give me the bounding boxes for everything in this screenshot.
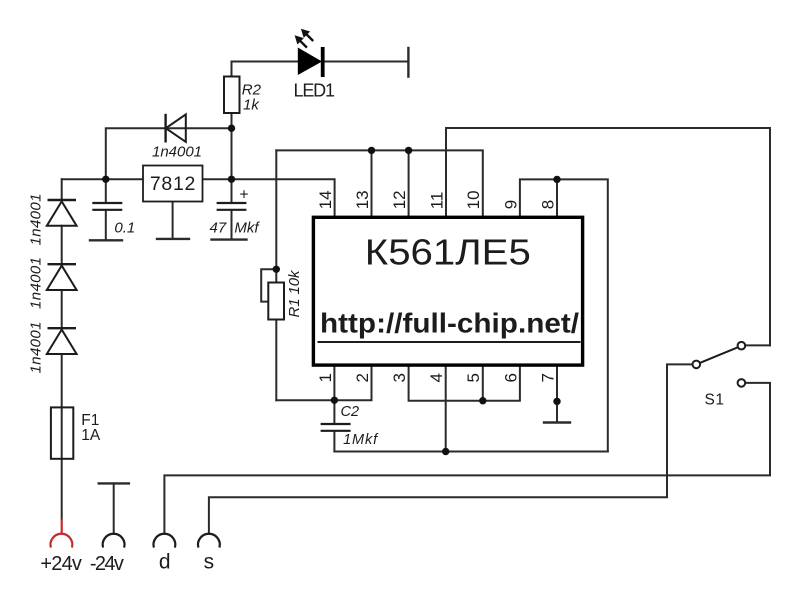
switch S1 lever bbox=[700, 347, 738, 363]
ground bar -24v bbox=[99, 482, 129, 484]
pin 7 label bbox=[538, 373, 557, 382]
label K561LE5 bbox=[365, 231, 531, 272]
wire -24v stem bbox=[113, 483, 115, 533]
wire bottom ground line bbox=[334, 451, 607, 453]
label R1 10k bbox=[286, 269, 303, 318]
wire s terminal to switch common bbox=[209, 364, 693, 533]
junction dot pin 5 bbox=[479, 397, 486, 404]
svg-text:0.1: 0.1 bbox=[114, 220, 135, 237]
wire R2 bottom to output line bbox=[231, 113, 233, 179]
label R2 value bbox=[242, 82, 262, 114]
svg-text:1n4001: 1n4001 bbox=[152, 144, 202, 161]
wire 0.1 cap stems bbox=[105, 179, 107, 239]
label 1n4001 D1 bbox=[27, 194, 44, 246]
pin 8 label bbox=[538, 200, 557, 209]
svg-text:6: 6 bbox=[501, 373, 520, 382]
wire pin 4 bbox=[445, 367, 447, 452]
underline url bbox=[318, 341, 581, 343]
svg-text:11: 11 bbox=[427, 192, 446, 210]
svg-text:9: 9 bbox=[501, 200, 520, 209]
svg-text:S1: S1 bbox=[705, 391, 725, 408]
svg-text:http://full-chip.net/: http://full-chip.net/ bbox=[320, 308, 579, 339]
svg-text:+: + bbox=[240, 187, 249, 204]
wire red +24v lead bbox=[61, 519, 63, 534]
wire d terminal to switch throw 2 bbox=[164, 383, 770, 534]
svg-text:Mkf: Mkf bbox=[234, 220, 260, 237]
capacitor 0.1 plates bbox=[92, 203, 122, 210]
pin 2 label bbox=[353, 373, 372, 382]
svg-text:5: 5 bbox=[464, 373, 483, 382]
label s bbox=[204, 550, 215, 573]
wire LED anode from R2 top bbox=[232, 62, 298, 77]
pin 11 label bbox=[427, 192, 446, 210]
ground bar pin 7 bbox=[544, 421, 570, 423]
wire left rail with diode chain bbox=[61, 179, 63, 519]
svg-text:R1 10k: R1 10k bbox=[286, 269, 303, 318]
junction dot pin 12 bbox=[405, 147, 412, 154]
LED LED1 emission arrow 1 bbox=[301, 29, 313, 41]
junction dot pin 8 bbox=[553, 176, 560, 183]
terminal d arc bbox=[154, 534, 176, 548]
junction dot R2 diode line bbox=[228, 125, 235, 132]
svg-text:1: 1 bbox=[316, 373, 335, 382]
junction dot R2 output line bbox=[228, 176, 235, 183]
junction dot R1 top bbox=[273, 266, 280, 273]
svg-text:C2: C2 bbox=[341, 404, 360, 420]
svg-text:2: 2 bbox=[353, 373, 372, 382]
svg-text:1k: 1k bbox=[243, 96, 260, 113]
svg-text:1Mkf: 1Mkf bbox=[343, 432, 379, 448]
wire LED cathode to terminal bar bbox=[325, 61, 409, 63]
resistor R2 bbox=[224, 77, 240, 114]
LED LED1 emission arrow 2 bbox=[295, 35, 307, 47]
svg-text:-24v: -24v bbox=[90, 553, 124, 575]
wire pins 9 and 8 bbox=[520, 179, 608, 451]
label url full-chip bbox=[320, 308, 579, 339]
wire C2 stems bbox=[333, 400, 335, 451]
terminal +24v red arc bbox=[50, 534, 72, 548]
svg-text:7812: 7812 bbox=[150, 173, 196, 195]
svg-text:1n4001: 1n4001 bbox=[27, 257, 44, 309]
pin 3 label bbox=[390, 373, 409, 382]
wire R1 wiper tap bbox=[261, 269, 276, 301]
svg-text:3: 3 bbox=[390, 373, 409, 382]
fuse F1 bbox=[51, 407, 73, 458]
pin 12 label bbox=[390, 190, 409, 209]
svg-text:7: 7 bbox=[538, 373, 557, 382]
LED LED1 triangle bbox=[298, 48, 322, 76]
pin 4 label bbox=[427, 373, 446, 382]
diode D3 1n4001 vertical bbox=[47, 328, 77, 354]
wire 7812 input line bbox=[62, 178, 143, 180]
label 1n4001 D2 bbox=[27, 257, 44, 309]
trimmer resistor R1 bbox=[268, 283, 284, 320]
switch S1 throw 2 contact bbox=[738, 379, 746, 387]
terminal -24v arc bbox=[103, 534, 125, 548]
label 1Mkf bbox=[343, 432, 379, 448]
svg-text:s: s bbox=[204, 550, 215, 573]
wire R1 branch vertical bbox=[275, 150, 277, 400]
switch S1 throw 1 contact bbox=[738, 342, 746, 350]
wire diode bypass line bbox=[106, 128, 232, 179]
label 47 Mkf bbox=[210, 220, 261, 237]
pin 13 label bbox=[353, 190, 372, 209]
svg-text:14: 14 bbox=[316, 190, 335, 209]
junction dot pin 7 bbox=[553, 398, 560, 405]
pin 14 label bbox=[316, 190, 335, 209]
ground bar 7812 bbox=[157, 238, 189, 240]
diode D2 1n4001 vertical bbox=[47, 264, 77, 290]
wire pin11 to top right bbox=[446, 128, 770, 345]
label F1 1A bbox=[81, 412, 101, 444]
ground bar 47Mkf bbox=[212, 238, 247, 240]
svg-text:8: 8 bbox=[538, 200, 557, 209]
pin 6 label bbox=[501, 373, 520, 382]
diode D4 1n4001 horizontal bbox=[166, 114, 186, 143]
label C2 bbox=[341, 404, 360, 420]
wire 47Mkf cap stems bbox=[231, 179, 233, 238]
pin 5 label bbox=[464, 373, 483, 382]
IC U1 K561LE5 body bbox=[313, 217, 582, 365]
ground bar 0.1 cap bbox=[90, 239, 122, 241]
svg-text:1n4001: 1n4001 bbox=[27, 194, 44, 246]
wire pins 3 5 6 bbox=[409, 367, 520, 401]
svg-text:13: 13 bbox=[353, 190, 372, 209]
svg-text:+24v: +24v bbox=[40, 553, 82, 575]
pin 10 label bbox=[464, 190, 483, 209]
wire switch throw 1 to top net bbox=[745, 344, 770, 346]
svg-text:1A: 1A bbox=[81, 427, 101, 444]
svg-text:10: 10 bbox=[464, 190, 483, 209]
pin 1 label bbox=[316, 373, 335, 382]
terminal s arc bbox=[198, 534, 220, 548]
switch S1 common contact bbox=[693, 361, 701, 369]
label 0.1 bbox=[114, 220, 135, 237]
label d bbox=[159, 550, 171, 573]
svg-text:12: 12 bbox=[390, 190, 409, 209]
regulator 7812 bbox=[143, 166, 203, 202]
LED LED1 cathode bar bbox=[321, 47, 325, 77]
wire pin 7 bbox=[556, 367, 558, 423]
label S1 bbox=[705, 391, 725, 408]
wire top net pin13 pin12 pin10 bbox=[276, 150, 483, 215]
svg-text:4: 4 bbox=[427, 373, 446, 382]
diode D1 1n4001 vertical bbox=[47, 200, 77, 226]
junction dot input 0.1 cap bbox=[102, 176, 109, 183]
svg-text:LED1: LED1 bbox=[294, 80, 336, 100]
svg-text:К561ЛЕ5: К561ЛЕ5 bbox=[365, 231, 531, 272]
label +24v bbox=[40, 553, 82, 575]
svg-text:1n4001: 1n4001 bbox=[27, 322, 44, 374]
svg-text:d: d bbox=[159, 550, 171, 573]
label 1n4001 horizontal diode bbox=[152, 144, 202, 161]
wire pins 1 and 2 bbox=[276, 367, 371, 401]
label 1n4001 D3 bbox=[27, 322, 44, 374]
label LED1 bbox=[294, 80, 336, 100]
wire 7812 output line to pin 14 bbox=[203, 179, 335, 215]
junction dot pin 13 bbox=[368, 147, 375, 154]
capacitor C2 plates bbox=[321, 424, 351, 431]
capacitor 47Mkf plates bbox=[217, 203, 247, 210]
junction dot pin 4 ground line bbox=[442, 448, 449, 455]
svg-text:47: 47 bbox=[210, 220, 227, 237]
wire 7812 ground pin bbox=[172, 202, 174, 238]
label -24v bbox=[90, 553, 124, 575]
label plus polarity 47Mkf bbox=[240, 187, 249, 204]
pin 9 label bbox=[501, 200, 520, 209]
node terminal bar end of LED wire bbox=[407, 48, 409, 77]
junction dot pin 1 C2 bbox=[331, 397, 338, 404]
